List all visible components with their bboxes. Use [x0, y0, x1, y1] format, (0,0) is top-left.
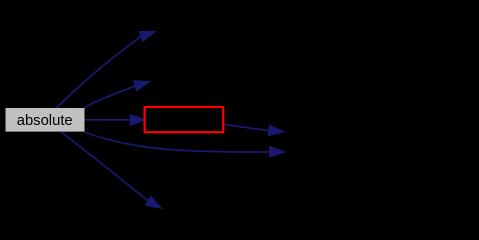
wire: long curve absolute to lower right callee [84, 132, 270, 152]
arrowhead edge 2 [134, 81, 150, 91]
node absolute [6, 108, 85, 132]
arrowhead edge 3 [130, 115, 146, 126]
wire: edge absolute to red node [84, 119, 130, 121]
wire: edge absolute to top callee [56, 37, 141, 109]
wire: edge red node to right callee [224, 124, 269, 130]
node truncated (red border) [145, 107, 224, 132]
wire: edge absolute to second callee [84, 86, 136, 108]
svg-text:absolute: absolute [17, 113, 73, 129]
arrowhead edge 1 [139, 31, 155, 41]
arrowhead edge 5 [145, 196, 161, 208]
arrowhead edge 4 [270, 147, 285, 158]
arrowhead edge 6 [268, 125, 284, 136]
wire: edge absolute to bottom callee [61, 132, 148, 201]
